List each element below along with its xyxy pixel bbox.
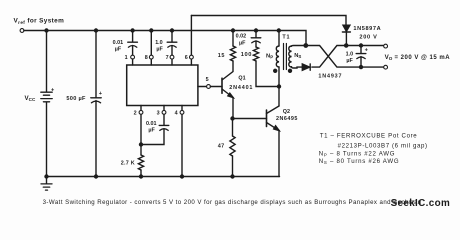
wire Q2 emitter to rail [278,131,280,177]
junction Q2 base node [231,117,234,120]
svg-text:6: 6 [185,55,188,61]
junction on top rail x=132.6 [131,29,134,32]
junction on top rail x=151.3 [150,29,153,32]
junction cap top [360,44,363,47]
wire Vcc branch [46,31,48,177]
op-amp/regulator IC U1 [127,65,198,106]
label 1N4937 [318,73,342,79]
wire Ns bottom to diode [292,67,303,68]
svg-text:100: 100 [241,52,252,58]
svg-text:2N6495: 2N6495 [276,116,298,122]
svg-text:T1: T1 [282,34,290,40]
wire pin4 branch [181,114,183,176]
svg-text:1.0: 1.0 [346,51,354,57]
svg-text:500 µF: 500 µF [66,96,86,102]
note T1 line2 [338,143,428,150]
svg-text:VO = 200 V @ 15 mA: VO = 200 V @ 15 mA [385,54,451,61]
wire primary top [278,31,280,47]
junction snubber/collector [278,85,281,88]
svg-text:µF: µF [239,40,246,46]
terminal output - [384,65,388,69]
capacitor 500uF [91,91,103,103]
wire rail to snubber [255,31,257,48]
svg-text:1N4937: 1N4937 [318,73,342,79]
svg-text:µF: µF [346,58,353,64]
svg-text:1.0: 1.0 [155,40,163,46]
transformer secondary Ns winding [289,46,292,67]
svg-text:µF: µF [156,46,163,52]
wire pin3 branch [141,114,164,144]
pin 2 [134,106,143,117]
label VCC [25,95,36,102]
svg-text:0.01: 0.01 [146,121,157,127]
svg-text:SeekIC.com: SeekIC.com [391,198,451,209]
junction Ns top / rail drop [304,44,307,47]
svg-text:NP: NP [266,53,273,59]
wire top rail (+5V) to transformer [24,31,306,46]
label Ns [294,53,301,59]
pin 3 [157,106,166,117]
svg-text:1: 1 [125,55,128,61]
pin 6 [185,55,194,61]
note Ns turns [319,158,400,165]
label Q1 [238,75,245,81]
ground [41,177,52,191]
wire pin7 branch [171,31,173,66]
junction on bottom rail x=141 [140,175,143,178]
svg-text:µF: µF [115,46,122,52]
wire rail to R15 [232,31,234,47]
resistor 100 [253,47,258,61]
svg-text:3-Watt Switching Regulator - c: 3-Watt Switching Regulator - converts 5 … [43,199,422,206]
junction on bottom rail x=232.5 [231,175,234,178]
svg-text:2.7 K: 2.7 K [121,160,135,166]
wire pin1 branch [132,31,134,56]
resistor 47 [230,136,235,177]
pin 5 [198,77,211,88]
label 1N5897A [353,26,381,32]
capacitor 0.02uF [251,38,261,43]
wire cap branch [360,46,362,68]
svg-text:0.02: 0.02 [236,33,247,39]
polarity dot Ns [289,69,292,72]
svg-text:Q1: Q1 [238,75,245,81]
wire Q2 base [233,118,267,120]
wire node to R47 [232,119,234,137]
wire Ns top [292,45,306,48]
transistor Q2 2N6495 [267,106,280,131]
label 200 V [359,34,377,40]
pin 4 [175,106,184,117]
label Np [266,53,273,59]
svg-text:Q2: Q2 [283,109,290,115]
resistor 2.7K [138,155,143,177]
wire pin5 to Q1 base [210,86,222,88]
wire feedback top [191,16,346,26]
diode 1N4937 [302,64,310,70]
svg-text:4: 4 [175,111,178,117]
terminal Vref input [20,29,24,33]
terminal output + [384,44,388,48]
svg-text:1N5897A: 1N5897A [353,26,381,32]
label Vref for System [14,18,65,25]
svg-text:47: 47 [218,143,225,149]
svg-text:8: 8 [145,55,148,61]
junction on top rail x=96 [95,29,98,32]
label 1.0uF pin7 [155,40,163,52]
capacitor 0.01uF (pin3) [159,125,169,130]
junction pin2/cap [140,143,143,146]
wire 500uF branch [95,31,97,177]
pin 7 [166,55,174,61]
svg-text:15: 15 [218,53,225,59]
wire pin8 branch [150,31,152,66]
wire pin6 branch [190,16,192,66]
label 100 [241,52,252,58]
capacitor 1.0uF (pin7) [167,42,177,47]
label 1.0uF output [346,51,354,63]
capacitor 1.0uF output [356,47,368,58]
svg-text:2N4401: 2N4401 [229,85,253,91]
transformer T1 label [282,34,290,40]
svg-text:NS – 80 Turns #26 AWG: NS – 80 Turns #26 AWG [319,158,400,165]
svg-text:3: 3 [157,111,160,117]
transformer core [284,44,287,70]
label 500uF [66,96,86,102]
junction on bottom rail x=46.5 [45,175,48,178]
label 15 [218,53,225,59]
pin 1 [125,55,135,65]
wire R15 to Q1 collector [222,61,233,80]
label 2N6495 [276,116,298,122]
wire crossover A (top-left to bottom-right) [306,46,384,68]
junction on top rail x=233 [232,29,235,32]
label Q2 [283,109,290,115]
junction on top rail x=278.8 [277,29,280,32]
svg-text:µF: µF [148,128,155,134]
svg-text:200 V: 200 V [359,34,377,40]
pin 8 [145,55,153,61]
svg-text:0.01: 0.01 [113,40,124,46]
junction diode/output rail [345,44,348,47]
wire Q2 collector to primary [278,67,280,106]
wire Q1 emitter to node [232,98,234,119]
capacitor 0.01uF (pin1) [128,42,138,47]
label VO output [385,54,451,61]
junction on bottom rail x=182 [181,175,184,178]
svg-text:2: 2 [134,111,137,117]
watermark SeekIC.com [391,198,451,209]
transistor Q1 2N4401 [222,78,233,97]
junction on top rail x=172 [171,29,174,32]
note T1 line1 [320,132,418,139]
resistor 15 [230,46,235,61]
svg-text:7: 7 [166,55,169,61]
wire bottom rail (ground) [47,176,280,178]
polarity dot Np [274,69,277,72]
junction on top rail x=46.5 [45,29,48,32]
svg-text:5: 5 [206,77,209,83]
junction on bottom rail x=96 [95,175,98,178]
caption [43,199,422,206]
junction on top rail x=256 [255,29,258,32]
label 0.01uF pin1 [113,40,124,52]
label 2.7K [121,160,135,166]
note Np turns [319,150,395,157]
label 0.02uF [236,33,247,46]
svg-text:#2213P-L003B7 (6 mil gap): #2213P-L003B7 (6 mil gap) [338,143,428,150]
wire crossover B (bottom-left to top-right) [312,46,384,68]
wire pin2 branch [140,114,142,155]
transformer primary Np winding [276,46,279,67]
battery VCC [41,88,55,102]
diode 1N5897A [342,25,350,45]
label 0.01uF pin3 [146,121,157,133]
label 2N4401 [229,85,253,91]
svg-text:T1 – FERROXCUBE Pot Core: T1 – FERROXCUBE Pot Core [320,132,418,139]
label 47 [218,143,225,149]
wire snubber to collector node [256,61,279,87]
junction cap bottom [360,66,363,69]
svg-text:NS: NS [294,53,301,59]
svg-text:NP – 8 Turns #22 AWG: NP – 8 Turns #22 AWG [319,150,395,157]
